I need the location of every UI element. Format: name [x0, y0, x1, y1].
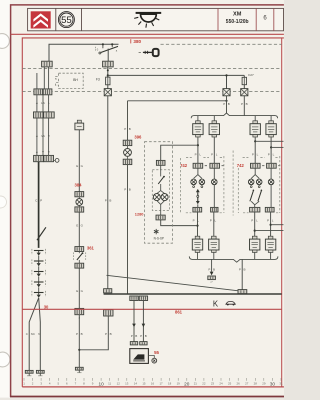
wire selector to conn left: [197, 204, 199, 207]
svg-text:A: A: [36, 150, 38, 154]
lamp 396: [124, 149, 132, 157]
wire lamp384 link b: [78, 205, 80, 207]
connector NS top: [156, 160, 165, 165]
lamp pin left b: [201, 186, 203, 188]
stalk switch 380: [96, 44, 118, 54]
terminal foot col79: [75, 367, 83, 372]
svg-text:E: E: [76, 289, 78, 293]
wire link 127-226: [128, 100, 227, 102]
label 1280: [135, 212, 144, 217]
label 742 left: [180, 163, 188, 168]
svg-text:P: P: [251, 218, 253, 222]
arrow tap b: [142, 324, 146, 328]
header divider 3: [217, 8, 219, 30]
svg-text:10: 10: [98, 381, 104, 386]
wire F3 down: [107, 85, 109, 89]
car icon: [226, 302, 235, 306]
label 861: [175, 310, 183, 315]
punch hole middle: [0, 196, 7, 208]
wire fork left: [194, 168, 202, 178]
wire lamp384 link a: [78, 197, 80, 199]
svg-text:P: P: [140, 334, 142, 338]
svg-text:55: 55: [61, 15, 72, 26]
wire lamp396 link a: [127, 146, 129, 149]
wire NS inner a: [160, 165, 162, 176]
bus tap connector b: [139, 296, 147, 301]
svg-text:NC: NC: [31, 332, 35, 336]
row8 side circle: [54, 159, 59, 163]
wire ground drop: [211, 259, 213, 271]
label E G c: [76, 289, 83, 293]
control unit 55 box: [130, 349, 149, 364]
dashed zone line A: [161, 43, 282, 45]
svg-text:B: B: [109, 199, 111, 203]
wire col79 d: [78, 315, 80, 368]
connector unit55 b: [140, 342, 147, 345]
dashed enclosure mid: [232, 151, 234, 216]
wire col108: [107, 96, 109, 289]
svg-text:742: 742: [237, 163, 245, 168]
label 2 below connector: [79, 316, 81, 320]
svg-text:K: K: [213, 299, 219, 308]
relay unit RLB2: [209, 236, 219, 252]
wire tap b: [142, 301, 144, 342]
plug component top: [75, 120, 84, 130]
connector row8 a: [34, 155, 44, 161]
svg-text:P: P: [131, 334, 133, 338]
punch hole top: [0, 34, 9, 49]
connector hl1a: [193, 163, 203, 168]
wire ladder a3: [36, 118, 38, 155]
svg-text:B: B: [246, 102, 248, 106]
wire hl2c down: [254, 212, 256, 236]
wire ladder c3: [48, 118, 50, 155]
wire F27 down: [243, 85, 245, 89]
svg-text:N: N: [38, 332, 40, 336]
label 380: [131, 39, 142, 44]
relay unit RL3: [250, 121, 260, 137]
label P B col127: [124, 127, 131, 131]
wire C1 stub 1: [43, 67, 45, 89]
svg-text:A: A: [36, 134, 38, 138]
wire fork right: [251, 168, 259, 178]
connector hl2b: [211, 207, 218, 212]
bottom page edge: [0, 398, 284, 400]
svg-text:20: 20: [184, 381, 190, 386]
split brace upper: [191, 113, 277, 118]
connector hl1d: [267, 163, 277, 168]
svg-text:B: B: [213, 267, 215, 271]
svg-text:861: 861: [175, 310, 183, 315]
ruler ticks: [24, 378, 281, 381]
ruler red line: [22, 386, 284, 388]
wire C1 stub 2: [48, 67, 50, 89]
svg-text:B: B: [129, 188, 131, 192]
wire col79 b: [78, 212, 80, 247]
ground connector: [208, 276, 216, 280]
relay unit RLB1: [192, 236, 202, 252]
svg-text:550-1/20b: 550-1/20b: [226, 19, 249, 25]
connector 361 bottom: [75, 263, 84, 268]
label 396: [134, 135, 142, 140]
title XM 550-1/20b: [226, 12, 249, 25]
svg-text:31: 31: [279, 382, 283, 386]
svg-text:21: 21: [194, 382, 198, 386]
wire hl2b down: [213, 212, 215, 236]
wire NS box out: [161, 220, 198, 226]
punch hole bottom: [0, 352, 10, 367]
lamp position left: [212, 179, 218, 185]
dashed tops left: [186, 157, 223, 159]
relay unit RLB3: [250, 236, 260, 252]
svg-text:19: 19: [177, 382, 181, 386]
label E G a: [76, 164, 83, 168]
dashed zone line B: [22, 68, 281, 70]
lamp pin right a: [250, 186, 252, 188]
wire xbox244 down: [243, 96, 245, 116]
svg-text:P: P: [193, 218, 195, 222]
connector row3 left a: [34, 89, 43, 95]
svg-text:P: P: [252, 152, 254, 156]
svg-text:B: B: [135, 334, 137, 338]
lamp dip left: [199, 179, 205, 185]
labels P L r1c4: [268, 152, 275, 156]
dashed enclosure left R: [223, 156, 225, 213]
label K: [213, 299, 219, 308]
svg-text:27: 27: [245, 382, 249, 386]
wire col127 a: [127, 101, 129, 140]
wire lamp396 link b: [127, 156, 129, 159]
header divider 4: [255, 8, 257, 30]
label P B col108: [105, 199, 112, 203]
svg-text:P: P: [105, 332, 107, 336]
lamp dip right: [256, 179, 262, 185]
wire brace RL1: [197, 116, 199, 121]
asterisk mark: [154, 229, 159, 234]
wire kbus drop: [241, 259, 243, 289]
label 742 right: [237, 163, 245, 168]
svg-text:P: P: [40, 199, 42, 203]
svg-text:380: 380: [133, 39, 141, 44]
label P B 244: [241, 102, 248, 106]
lamp NS a: [153, 194, 160, 201]
relay unit RL1: [193, 121, 203, 137]
svg-text:361: 361: [87, 245, 95, 250]
wire xbox226 down: [226, 96, 228, 113]
relay BH: [56, 73, 84, 88]
svg-text:V: V: [48, 134, 50, 138]
node NS join: [196, 225, 198, 227]
lamp pin right b: [258, 186, 260, 188]
svg-text:V: V: [48, 150, 50, 154]
wire top feed: [49, 44, 119, 61]
svg-text:742: 742: [180, 163, 188, 168]
svg-text:396: 396: [134, 135, 142, 140]
dash mark hl1b: [222, 165, 224, 167]
svg-text:P: P: [239, 267, 241, 271]
svg-text:12: 12: [117, 382, 121, 386]
svg-text:C: C: [26, 332, 28, 336]
55 badge: [58, 12, 74, 28]
wire RL1 to NS box: [161, 145, 198, 160]
svg-text:B: B: [110, 332, 112, 336]
wire col108 low: [79, 316, 108, 350]
wire C2 down: [107, 67, 109, 77]
svg-text:B: B: [129, 127, 131, 131]
wire diagonal to kbus: [107, 275, 239, 291]
diagram frame: [22, 38, 284, 387]
svg-text:N-S-6P: N-S-6P: [154, 236, 164, 240]
wire RL2 down: [213, 137, 215, 163]
node C2 cross: [107, 69, 109, 71]
labels P B tap a: [131, 334, 138, 338]
terminal foot left: [25, 370, 33, 375]
terminal foot right: [36, 370, 44, 375]
wire RL4 down: [270, 137, 272, 163]
label 384: [75, 182, 83, 187]
connector C2: [103, 61, 114, 67]
label P B 226: [223, 102, 230, 106]
svg-text:18: 18: [168, 382, 172, 386]
wire col79 c: [78, 268, 80, 308]
svg-text:B: B: [145, 334, 147, 338]
wire fuse bus: [108, 74, 245, 76]
connector 384 top: [75, 192, 84, 197]
wire brace RL2: [213, 116, 215, 121]
wire ladder b3: [42, 118, 44, 155]
svg-text:BH: BH: [73, 78, 78, 82]
wire merge right: [251, 201, 259, 207]
label 55 red: [154, 350, 159, 355]
fuse F3: [106, 77, 110, 85]
label E G b: [76, 224, 83, 228]
svg-text:E: E: [76, 224, 78, 228]
dashed enclosure right L: [237, 168, 239, 213]
node RL3 tap: [254, 140, 256, 142]
labels P L r1c3: [252, 152, 259, 156]
switch contacts right: [250, 190, 262, 202]
header divider 2: [81, 8, 83, 30]
bus bar K line: [104, 293, 282, 295]
lamp main right: [248, 179, 254, 185]
svg-text:B: B: [243, 267, 245, 271]
ignition key icon: [139, 49, 159, 56]
svg-text:28: 28: [254, 382, 258, 386]
svg-text:26: 26: [237, 382, 241, 386]
labels P L r2c1: [193, 218, 200, 222]
connector hl2a: [193, 207, 202, 212]
connector 361 top: [75, 247, 84, 252]
dash mark hl1a: [205, 165, 207, 167]
labels C NC N: [26, 332, 41, 336]
dash mark hl1d: [278, 165, 280, 167]
wire RL3 to edge: [255, 140, 283, 142]
wire col127 b: [127, 165, 129, 294]
svg-text:30: 30: [44, 304, 49, 309]
wire RLB2 out: [213, 252, 215, 259]
svg-text:16: 16: [151, 382, 155, 386]
connector hl2c: [250, 207, 260, 212]
light switch stack: [32, 249, 46, 298]
node col79 join: [78, 349, 80, 351]
NS6P outer dashed box: [145, 142, 173, 244]
bus tap connector a: [130, 296, 138, 301]
dash mark hl1c: [262, 165, 264, 167]
svg-text:P: P: [76, 332, 78, 336]
label C P: [35, 199, 42, 203]
svg-text:P: P: [208, 267, 210, 271]
svg-text:11: 11: [108, 382, 111, 386]
labels P L r2c4: [267, 218, 274, 222]
label N-S-6P: [154, 236, 164, 240]
svg-text:30: 30: [270, 381, 276, 386]
label P B col79: [76, 332, 83, 336]
wire RL1 down: [197, 137, 199, 163]
relay unit RL2: [209, 121, 219, 137]
svg-text:P: P: [195, 152, 197, 156]
dashed enclosure right R: [279, 156, 281, 213]
connector col108 low: [104, 310, 113, 316]
svg-text:15: 15: [142, 382, 146, 386]
wire NS fork: [157, 184, 165, 194]
dashed tops right: [243, 157, 280, 159]
interior lamp circle: [148, 356, 156, 364]
wire C P trunk: [38, 162, 40, 248]
wire single left: [213, 168, 215, 179]
node RL1 tap: [197, 144, 199, 146]
left page margin: [0, 0, 10, 400]
svg-text:P: P: [105, 199, 107, 203]
svg-text:F27: F27: [248, 73, 254, 77]
header divider 1: [55, 8, 57, 30]
wire to xbox 226: [226, 75, 228, 88]
svg-text:VA: VA: [41, 134, 45, 138]
dashed enclosure left L: [180, 158, 182, 213]
svg-text:B: B: [81, 332, 83, 336]
lamp 384: [76, 199, 83, 206]
wire ladder a1: [36, 73, 38, 89]
connector xbox 226: [223, 89, 230, 96]
labels A LA L: [36, 101, 50, 105]
svg-text:B: B: [228, 102, 230, 106]
node hl2c tap: [254, 230, 256, 232]
svg-text:14: 14: [134, 382, 138, 386]
wire RLB4 out: [270, 252, 272, 259]
wire tap a: [133, 301, 135, 342]
node fuse tap: [107, 74, 109, 76]
labels P B kbus: [239, 267, 246, 271]
svg-text:P: P: [267, 218, 269, 222]
connector row3 left b: [43, 89, 52, 95]
NS6P inner dashed box: [152, 170, 169, 211]
svg-text:384: 384: [75, 182, 83, 187]
svg-text:25: 25: [228, 382, 232, 386]
node switch contact 2: [111, 43, 113, 45]
red rule K zone: [22, 308, 281, 310]
switch wiper arrow: [37, 227, 46, 240]
beam selector left: [196, 189, 200, 204]
lamp icon: [134, 12, 161, 28]
sheet number 6: [263, 16, 267, 22]
svg-text:P: P: [210, 218, 212, 222]
switch 361: [74, 252, 86, 260]
svg-text:23: 23: [211, 382, 215, 386]
svg-text:P: P: [223, 102, 225, 106]
connector 396 top: [123, 140, 132, 145]
svg-text:24: 24: [219, 382, 223, 386]
svg-text:XM: XM: [233, 12, 242, 18]
wire switch to connector: [107, 49, 109, 62]
Citroen logo: [31, 11, 51, 28]
connector NS bottom: [156, 215, 165, 220]
connector xbox 108: [104, 89, 111, 96]
svg-text:17: 17: [159, 382, 163, 386]
wire single right down: [270, 185, 272, 208]
connector hl1b: [210, 163, 220, 168]
svg-text:P: P: [211, 152, 213, 156]
wire hl2d down: [270, 212, 272, 236]
arrow tap a: [132, 324, 136, 328]
wire ladder b2: [42, 95, 44, 112]
ground label: [211, 281, 214, 284]
connector hl1c: [251, 163, 261, 168]
connector xbox 244: [241, 89, 248, 96]
connector row8 b: [44, 155, 54, 161]
wire NS merge: [157, 201, 165, 216]
wire stack out left: [29, 298, 39, 371]
connector C1: [42, 61, 53, 67]
wire brace RL3: [254, 116, 256, 121]
connector unit55 a: [130, 342, 137, 345]
lamp pin left a: [193, 186, 195, 188]
ruler numbers: [23, 381, 283, 386]
labels A V row8: [36, 150, 50, 154]
lamp position right: [268, 179, 274, 185]
wire RL3 down: [254, 137, 256, 163]
label P B col108 low: [105, 332, 112, 336]
node 226 tap: [225, 74, 227, 76]
fuse F27: [242, 75, 246, 84]
labels P L r1c1: [195, 152, 202, 156]
red rule under header: [11, 33, 284, 35]
node hl2d tap: [270, 224, 272, 226]
wire ladder a2: [36, 95, 38, 112]
labels P L r1c2: [211, 152, 218, 156]
svg-text:13: 13: [125, 382, 129, 386]
dashed bottoms: [186, 212, 280, 214]
svg-text:E: E: [76, 164, 78, 168]
svg-text:55: 55: [154, 350, 159, 355]
connector 396 bottom: [123, 159, 132, 164]
node RL4 tap: [270, 146, 272, 148]
connector row6 a: [34, 112, 44, 118]
wire RLB3 out: [254, 252, 256, 259]
wire hl2a down: [197, 212, 199, 236]
header divider 5: [273, 8, 275, 30]
wire hl2c to edge: [255, 230, 284, 232]
svg-text:22: 22: [202, 382, 206, 386]
labels P L r2c3: [251, 218, 258, 222]
svg-text:V: V: [42, 150, 44, 154]
connector 384 bottom: [75, 207, 84, 212]
ground arrow: [210, 272, 214, 276]
wire 361 inner a: [78, 252, 80, 254]
wire col79 a: [78, 130, 80, 192]
lamp main left: [191, 179, 197, 185]
bus left tab: [104, 289, 112, 293]
label F3: [96, 78, 100, 82]
labels P B ground: [208, 267, 215, 271]
